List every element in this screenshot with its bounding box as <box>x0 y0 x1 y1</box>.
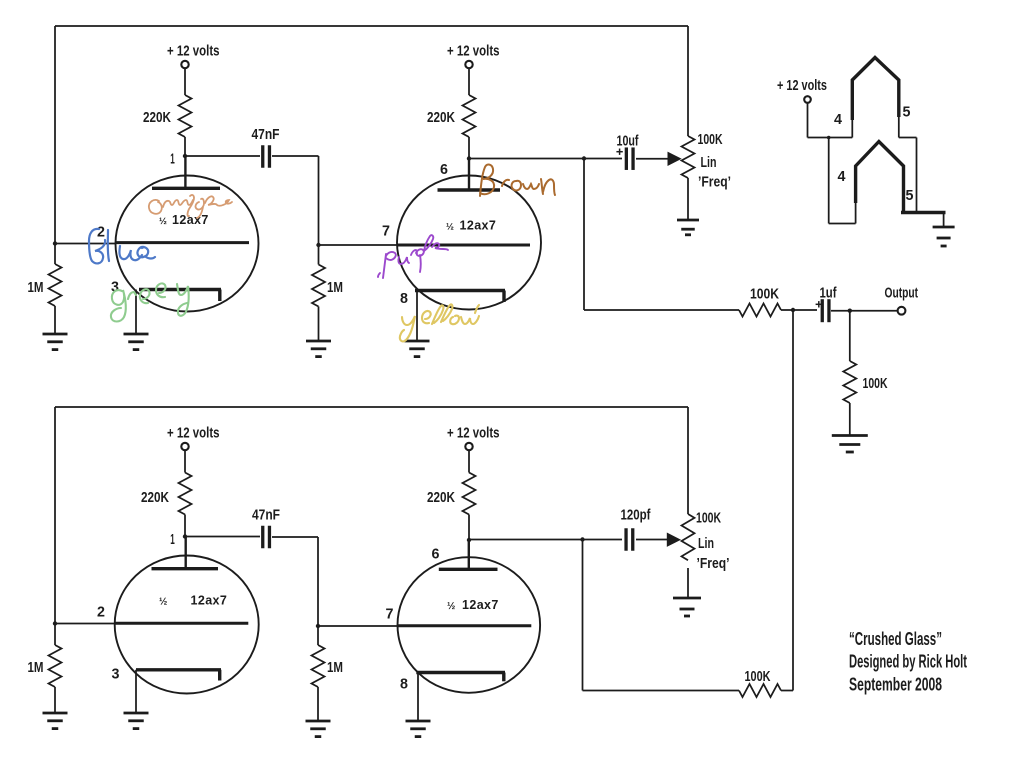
svg-text:220K: 220K <box>143 109 171 126</box>
wire V1a grid stub <box>55 243 116 245</box>
node plate V2a (pin1) <box>183 534 187 538</box>
resistor 1M V1b grid <box>312 265 325 307</box>
svg-text:7: 7 <box>382 224 390 240</box>
wire heater2 feed drop <box>828 138 830 224</box>
triode V1a envelope <box>116 176 259 312</box>
wire 1M bottom lead left <box>54 306 56 334</box>
svg-text:3: 3 <box>112 667 120 683</box>
ground V2a cathode <box>124 713 149 729</box>
svg-text:1M: 1M <box>327 279 343 296</box>
terminal +12 V2a <box>181 443 188 450</box>
wire bottom mix run <box>583 690 740 692</box>
triode V1a plate lead <box>184 156 186 188</box>
svg-text:220K: 220K <box>427 489 455 506</box>
svg-text:1M: 1M <box>327 659 343 676</box>
wire 1M bottom lead left2 <box>54 624 56 646</box>
svg-text:1: 1 <box>170 532 175 548</box>
wire junction drop to mix <box>583 159 585 311</box>
node heater feed junction <box>827 136 831 140</box>
wire node6b to junction <box>469 539 583 541</box>
wire C1 drop to V1b grid <box>318 156 320 245</box>
triode V1b plate bar <box>438 188 501 191</box>
resistor 100K bottom mix <box>739 684 781 697</box>
svg-text:100K: 100K <box>750 286 779 303</box>
wire 1M mid top lead2 <box>317 626 319 645</box>
triode V2b plate lead <box>468 540 470 569</box>
triode V2a cathode hook <box>218 670 221 681</box>
wire top feedback rail <box>55 25 688 27</box>
wire 1M to ground left2 <box>54 687 56 713</box>
svg-text:8: 8 <box>400 291 408 307</box>
svg-text:12ax7: 12ax7 <box>172 213 209 227</box>
ground 1M mid bottom <box>306 721 331 737</box>
svg-text:1M: 1M <box>28 659 44 676</box>
wire V2a supply lead <box>184 450 186 473</box>
wire heater2 pin4 stub <box>855 201 857 224</box>
triode V1a cathode lead <box>135 290 137 334</box>
svg-text:5: 5 <box>903 105 911 121</box>
ground 1M mid top <box>306 341 331 357</box>
wire pot2 bottom lead <box>687 568 689 597</box>
triode V1a plate bar <box>152 187 220 190</box>
svg-text:1M: 1M <box>28 279 44 296</box>
wire junction drop bottom <box>582 540 584 691</box>
wire V1a supply lead <box>184 68 186 95</box>
node plate V2b (pin6) <box>467 538 471 542</box>
ground output shunt <box>832 436 868 453</box>
wire bottom left drop <box>54 407 56 624</box>
svg-text:Lin: Lin <box>701 154 717 171</box>
wire C2 to wiper arrow <box>636 158 668 160</box>
svg-text:September 2008: September 2008 <box>849 675 942 695</box>
svg-text:+ 12 volts: + 12 volts <box>777 77 827 94</box>
heater filament 1 (pins 4-5) <box>852 58 899 121</box>
ground pot VR2 <box>673 598 701 616</box>
svg-text:4: 4 <box>834 112 842 128</box>
polarity + 1uf <box>816 301 822 307</box>
handwriting Blue (grid wire color note) <box>89 229 155 264</box>
triode V2a plate lead <box>184 537 186 569</box>
wire 220K to node1 <box>184 137 186 156</box>
resistor 220K V1a plate <box>179 95 192 137</box>
node feedback junction bottom <box>580 537 584 541</box>
svg-text:10uf: 10uf <box>617 133 640 150</box>
triode V2b envelope <box>398 557 541 693</box>
svg-text:5: 5 <box>906 188 914 204</box>
svg-text:Lin: Lin <box>698 535 714 552</box>
ground V1b cathode <box>405 341 430 357</box>
wire V2b supply lead <box>468 450 470 473</box>
svg-text:1: 1 <box>170 152 175 168</box>
capacitor 1uf output <box>822 299 829 322</box>
svg-text:12ax7: 12ax7 <box>462 598 499 612</box>
svg-text:100K: 100K <box>698 131 723 148</box>
svg-text:’Freq’: ’Freq’ <box>698 174 731 191</box>
triode V2b cathode bar <box>416 671 505 674</box>
wire pot2 top lead from rail <box>687 407 689 514</box>
node plate V1a (pin1) <box>183 154 187 158</box>
svg-text:1uf: 1uf <box>820 285 838 302</box>
wiper arrow pot VR2 <box>667 533 681 547</box>
terminal +12 V2b <box>465 443 472 450</box>
triode V1a cathode bar <box>139 288 221 291</box>
triode V2b cathode hook <box>502 673 505 682</box>
svg-text:½: ½ <box>159 216 167 227</box>
resistor 100K series output <box>739 304 781 317</box>
svg-text:+ 12 volts: + 12 volts <box>447 43 500 60</box>
triode V1a cathode hook <box>218 290 221 302</box>
node output shunt junction <box>848 309 852 313</box>
svg-text:+ 12 volts: + 12 volts <box>167 425 220 442</box>
wire heater1 pin4 stub <box>851 118 853 138</box>
wire node6 to junction <box>469 158 584 160</box>
ground 1M left bottom <box>43 713 68 729</box>
terminal +12 V1a <box>181 61 188 68</box>
svg-text:2: 2 <box>97 225 105 241</box>
svg-text:12ax7: 12ax7 <box>191 594 228 608</box>
wire V1b supply lead <box>468 68 470 95</box>
triode V1b cathode hook <box>502 291 505 303</box>
ground 1M left top <box>43 334 68 350</box>
svg-text:7: 7 <box>386 607 394 623</box>
wire shunt to ground <box>849 403 851 435</box>
svg-text:½: ½ <box>159 597 167 608</box>
svg-text:Designed by Rick Holt: Designed by Rick Holt <box>849 652 967 672</box>
wire 220K to node6 <box>468 137 470 159</box>
handwriting Brown (plate wire color note) <box>480 165 555 196</box>
wire node1 to C3 <box>185 536 260 538</box>
wire V2b grid stub <box>318 625 398 627</box>
handwriting green (cathode wire color note) <box>111 283 189 321</box>
wire heater ground stem <box>943 213 945 228</box>
svg-text:100K: 100K <box>745 668 771 685</box>
svg-text:“Crushed Glass”: “Crushed Glass” <box>849 629 942 649</box>
heater ground bus bar <box>901 211 946 214</box>
potentiometer 100K VR1 <box>682 136 695 178</box>
svg-text:220K: 220K <box>427 109 455 126</box>
triode V1a grid bar <box>116 241 249 244</box>
terminal +12 heaters <box>804 96 811 103</box>
ground V1a cathode <box>124 334 149 350</box>
svg-text:½: ½ <box>446 222 454 233</box>
svg-text:½: ½ <box>447 601 455 612</box>
wire node1 to C1 <box>185 155 260 157</box>
wire heater1 pin5 across <box>899 137 917 139</box>
resistor 220K V2b plate <box>463 473 476 515</box>
wire junction to C4 <box>583 539 623 541</box>
wire left feedback drop <box>54 26 56 244</box>
triode V1b cathode bar <box>415 289 505 292</box>
svg-text:4: 4 <box>838 169 846 185</box>
wire bottom mix to riser <box>781 690 793 692</box>
capacitor 47nF C3 <box>263 526 270 549</box>
svg-text:220K: 220K <box>141 489 169 506</box>
triode V2a envelope <box>115 556 259 694</box>
ground pot VR1 <box>677 220 699 235</box>
node V2b grid junction <box>316 624 320 628</box>
wire bottom feedback rail <box>55 406 688 408</box>
triode V2b cathode lead <box>417 673 419 721</box>
triode V2a grid bar <box>115 622 249 625</box>
wire pot1 bottom lead <box>687 178 689 220</box>
node V1b grid junction <box>316 243 320 247</box>
wire heater right drop <box>916 138 918 213</box>
wire R series to junction <box>781 309 793 311</box>
wire heater top feed <box>808 137 853 139</box>
capacitor 47nF C1 <box>263 145 270 168</box>
terminal Output <box>898 307 906 315</box>
node V1a grid junction <box>53 241 57 245</box>
node mix junction <box>791 308 795 312</box>
svg-text:47nF: 47nF <box>252 507 280 524</box>
wire junction to C2 <box>584 158 622 160</box>
wire 1M mid top lead <box>318 245 320 265</box>
triode V1b plate lead <box>468 159 470 191</box>
resistor 100K output shunt <box>843 361 856 403</box>
svg-text:8: 8 <box>400 677 408 693</box>
ground V2b cathode <box>406 721 431 737</box>
wire shunt lead <box>849 311 851 361</box>
wire V2a grid stub <box>55 623 115 625</box>
svg-text:2: 2 <box>97 605 105 621</box>
triode V2b grid bar <box>398 624 532 627</box>
wire C3 drop to V2b grid <box>317 537 319 626</box>
svg-text:+ 12 volts: + 12 volts <box>167 43 220 60</box>
triode V1b grid bar <box>398 244 530 247</box>
svg-text:100K: 100K <box>863 375 888 392</box>
node feedback junction top <box>582 156 586 160</box>
wire heater1 pin5 stub <box>898 116 900 138</box>
svg-text:120pf: 120pf <box>621 507 652 524</box>
wire junction to C out <box>793 309 817 311</box>
wire pot1 top lead from rail <box>687 26 689 136</box>
wire V1b grid stub <box>319 244 399 246</box>
heater filament 2 (pins 4-5) <box>856 142 904 212</box>
capacitor 120pf C4 <box>626 528 633 551</box>
wire mix to R series <box>584 309 739 311</box>
wire C out to output jack <box>831 310 898 312</box>
svg-text:+ 12 volts: + 12 volts <box>447 425 500 442</box>
wire bottom mix riser <box>792 310 794 691</box>
wire heater2 feed across <box>829 223 856 225</box>
resistor 220K V1b plate <box>463 95 476 137</box>
handwriting purple (grid wire color note) <box>378 235 448 278</box>
triode V2a plate bar <box>152 567 219 570</box>
wire 1M top lead left <box>54 244 56 265</box>
wire 1M mid bottom lead <box>318 307 320 341</box>
svg-text:Output: Output <box>885 285 919 302</box>
resistor 1M V1a grid <box>49 264 62 306</box>
wire C3 to corner <box>272 536 318 538</box>
terminal +12 V1b <box>465 61 472 68</box>
wiper arrow pot VR1 <box>668 152 682 166</box>
svg-text:6: 6 <box>432 547 440 563</box>
resistor 220K V2a plate <box>179 473 192 515</box>
handwriting orange (plate wire color note) <box>149 195 232 218</box>
triode V2a cathode bar <box>136 668 221 671</box>
capacitor 10uf C2 <box>626 147 633 170</box>
wire C4 to wiper arrow <box>636 539 667 541</box>
resistor 1M V2a grid <box>49 645 62 687</box>
wire heater supply drop <box>807 103 809 138</box>
wire C1 to corner <box>272 155 319 157</box>
polarity + C2 <box>616 149 622 155</box>
node V2a grid junction <box>53 621 57 625</box>
handwriting yellow (cathode wire color note) <box>400 304 479 341</box>
triode V1b envelope <box>397 176 541 310</box>
resistor 1M V2b grid <box>312 645 325 687</box>
potentiometer 100K VR2 <box>682 514 695 560</box>
triode V2b plate bar <box>439 568 498 571</box>
triode V2a cathode lead <box>135 670 137 713</box>
wire 220K to node6 bottom <box>468 515 470 541</box>
wire 220K to node1 bottom <box>184 515 186 537</box>
node plate V1b (pin6) <box>467 156 471 160</box>
svg-text:6: 6 <box>440 162 448 178</box>
ground heaters <box>933 227 955 246</box>
svg-text:’Freq’: ’Freq’ <box>697 555 730 572</box>
wire 1M mid bottom lead2 <box>317 687 319 721</box>
triode V1b cathode lead <box>416 291 418 341</box>
svg-text:100K: 100K <box>696 510 721 527</box>
svg-text:12ax7: 12ax7 <box>460 219 497 233</box>
svg-text:47nF: 47nF <box>252 126 280 143</box>
